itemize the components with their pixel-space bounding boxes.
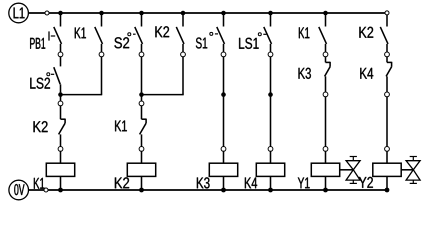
top rail end terminal circle [385, 11, 389, 15]
relay contact K1 NC [139, 101, 146, 151]
terminal circle on top rail [45, 11, 49, 15]
pushbutton contact PB1 [49, 12, 63, 57]
label coil K2 [115, 177, 129, 188]
label coil Y1 [298, 178, 310, 189]
relay contact K2 NO rung8 [380, 27, 389, 57]
coil K1 [46, 151, 74, 189]
wire rung2 branch join [61, 94, 103, 96]
junction dot rung4 top rail [181, 11, 186, 16]
junction dot rung3 top rail [139, 11, 144, 16]
junction dot rung6 bottom rail [268, 188, 273, 193]
limit switch contact LS2 [47, 57, 61, 92]
wire coil Y1 to valve [340, 169, 354, 171]
label K3 NC [299, 68, 311, 79]
junction dot rung7 bottom rail [323, 188, 328, 193]
coil Y1 [311, 151, 339, 189]
wire rung3 node to K1 [141, 95, 143, 101]
terminal circle above coil K3 [221, 147, 226, 152]
top power rail L1 [28, 12, 385, 14]
power terminal L1 [9, 3, 29, 23]
junction dot rung5 bottom rail [221, 188, 226, 193]
label PB1 [30, 38, 45, 49]
wire rung6 down [270, 57, 272, 146]
wire rung1 node to K2 [60, 95, 62, 101]
coil K2 [127, 151, 155, 189]
wire rung4 down [182, 57, 184, 95]
wire rung8 down [386, 97, 388, 146]
node A junction dot rung1 [58, 92, 63, 97]
junction dot rung5 top rail [221, 11, 226, 16]
label K2 rung8 [359, 27, 373, 38]
label LS2 [30, 78, 50, 89]
label K1 top [75, 28, 86, 39]
junction dot rung2 top rail [99, 11, 104, 16]
solenoid valve for Y2 [406, 157, 420, 184]
label K1 NC [115, 121, 127, 132]
relay contact K1 NO seal-in [95, 12, 104, 57]
coil K3 [209, 151, 237, 189]
label LS1 [239, 38, 259, 49]
solenoid valve for Y1 [346, 157, 360, 184]
label S2 [114, 37, 129, 48]
node B junction dot rung3 [139, 92, 144, 97]
label coil K3 [197, 177, 210, 188]
wire rung3 to node [141, 57, 143, 92]
terminal circle above coil Y1 [323, 147, 328, 152]
junction dot rung1 top rail [58, 11, 63, 16]
node junction dot rung6 [268, 92, 273, 97]
relay contact K4 NC [385, 57, 392, 97]
wire rung7 down [325, 97, 327, 146]
label coil K4 [245, 178, 257, 189]
wire rung8 from rail terminal [386, 15, 388, 27]
node junction dot rung5 [221, 92, 226, 97]
terminal circle on bottom rail [44, 188, 48, 192]
label K2 NC [34, 121, 48, 132]
limit switch contact S1 [210, 12, 226, 57]
terminal circle above coil K4 [268, 147, 273, 152]
relay contact K1 NO rung7 [319, 12, 328, 57]
relay contact K2 NC [58, 101, 65, 151]
label K1 rung7 [299, 27, 310, 38]
power terminal 0V [9, 180, 29, 200]
coil K4 [256, 151, 284, 189]
junction dot rung8 bottom rail [385, 188, 390, 193]
wire coil Y2 to valve [401, 169, 413, 171]
terminal circle above coil Y2 [385, 147, 390, 152]
junction dot rung6 top rail [268, 11, 273, 16]
relay contact K2 NO seal-in [176, 12, 185, 57]
label coil Y2 [359, 177, 373, 188]
relay contact K3 NC [323, 57, 330, 97]
label S1 [196, 37, 207, 48]
junction dot rung1 bottom rail [58, 188, 63, 193]
label K4 NC [360, 68, 373, 79]
wire rung2 down [101, 57, 103, 95]
label coil K1 [34, 178, 45, 189]
limit switch contact S2 [128, 12, 144, 57]
label K2 top [155, 26, 169, 37]
wire rung5 down [223, 57, 225, 146]
bottom power rail 0V [29, 189, 388, 191]
junction dot rung3 bottom rail [139, 188, 144, 193]
limit switch contact LS1 [258, 12, 273, 57]
coil Y2 [373, 151, 401, 189]
wire rung4 branch join [142, 94, 184, 96]
junction dot rung7 top rail [323, 11, 328, 16]
